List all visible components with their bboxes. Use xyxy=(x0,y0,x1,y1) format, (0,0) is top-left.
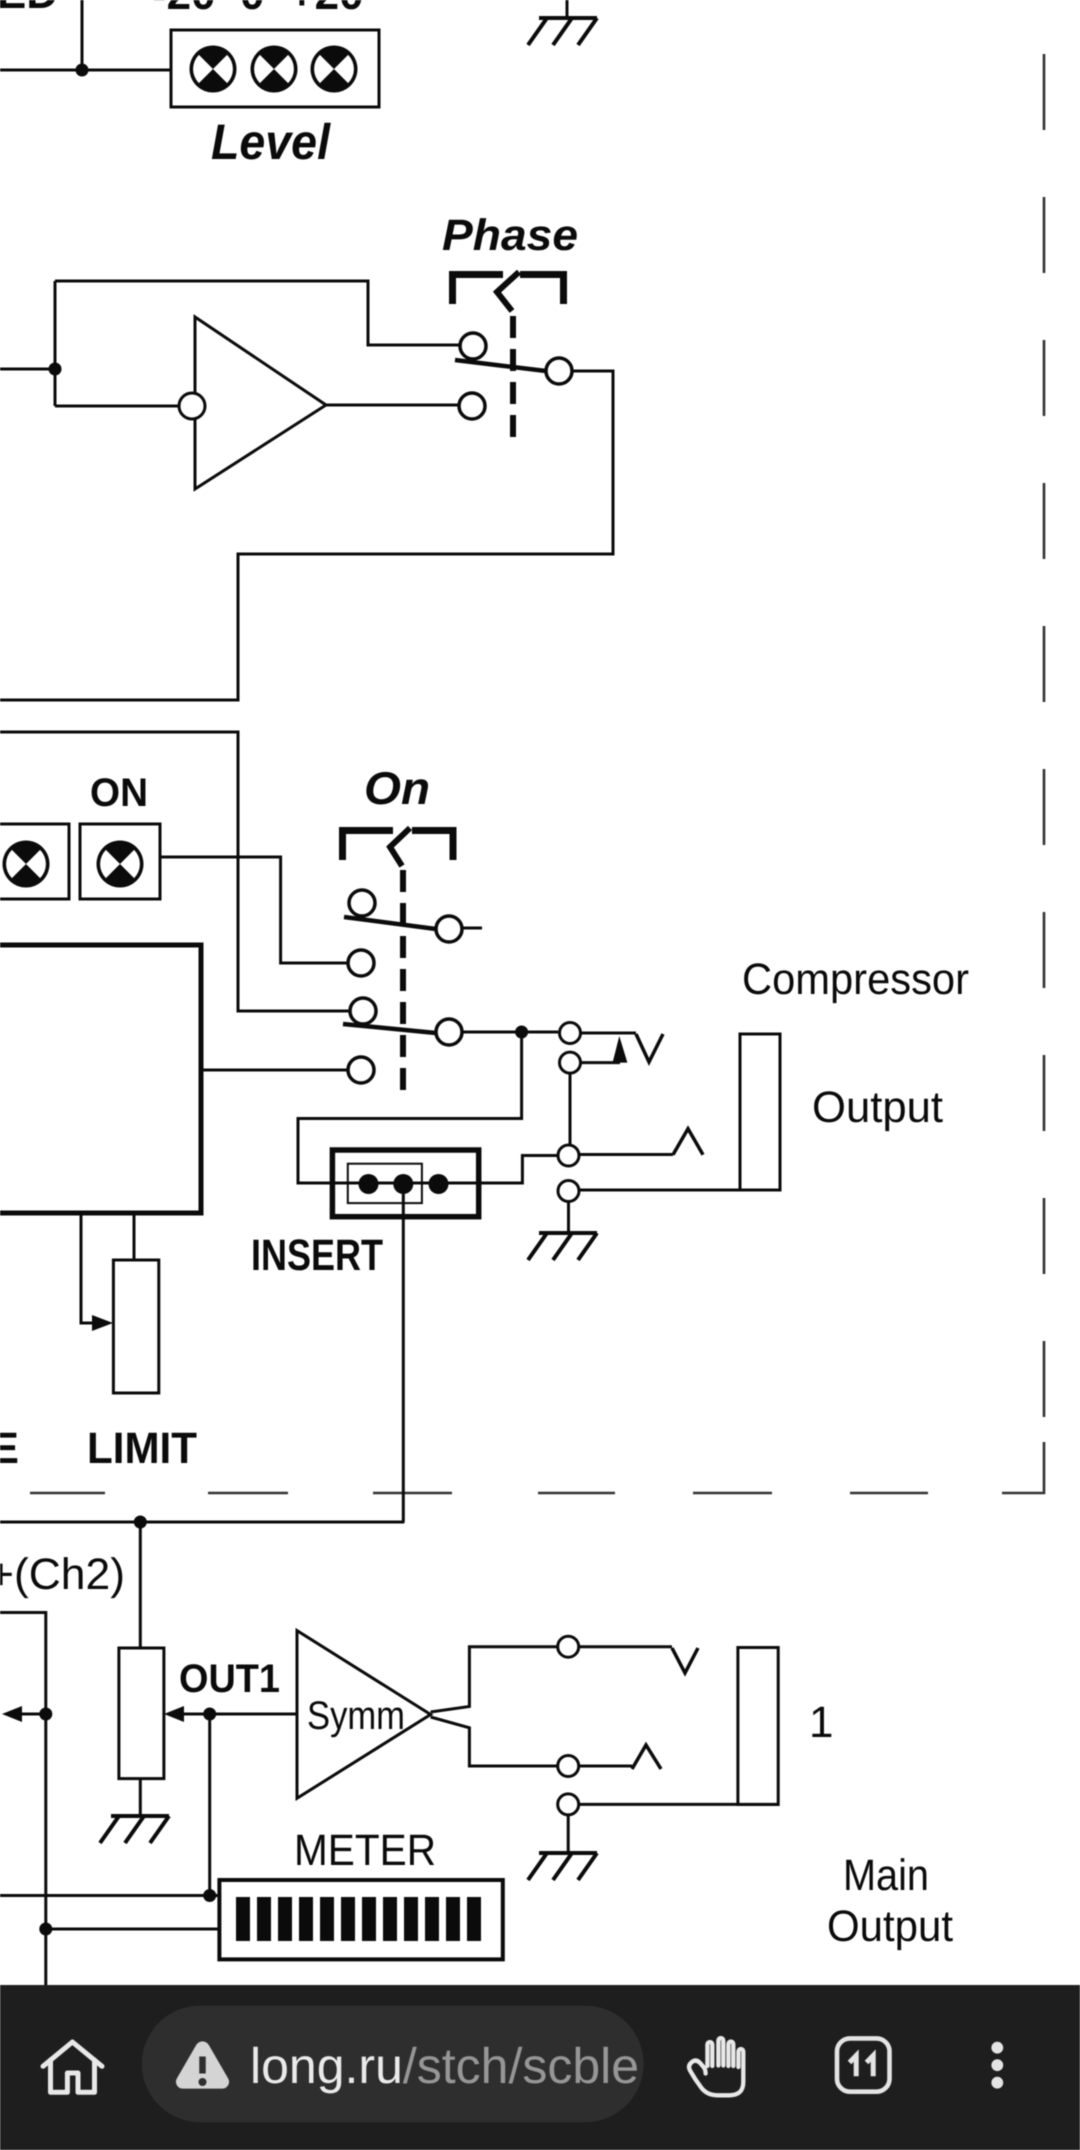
wire op-amp input from left xyxy=(0,368,55,371)
main out tip V contact xyxy=(672,1648,698,1673)
wire sleeve to jack body xyxy=(579,1803,778,1806)
INSERT connector inner box xyxy=(348,1164,422,1203)
svg-text:long.ru/stch/scble: long.ru/stch/scble xyxy=(250,2038,639,2094)
svg-text:Main: Main xyxy=(843,1851,929,1900)
On switch pole 3 contact xyxy=(350,998,376,1024)
ground stub top xyxy=(566,0,569,16)
wire return contact to caret xyxy=(579,1153,673,1156)
On switch actuator bracket xyxy=(343,831,454,861)
tip normal arrow xyxy=(613,1036,628,1063)
return normal caret xyxy=(673,1129,703,1155)
wire out1 down to meter xyxy=(208,1714,211,1896)
wire ring to caret xyxy=(579,1765,632,1768)
warning exclamation xyxy=(199,2057,206,2074)
wire stub with left arrow xyxy=(22,1713,46,1716)
phase switch pole B contact xyxy=(459,393,485,419)
svg-text:Output: Output xyxy=(827,1902,953,1951)
insert jack sleeve contact xyxy=(558,1181,579,1202)
node junction out1 xyxy=(203,1708,216,1721)
svg-text:-20 0 +20: -20 0 +20 xyxy=(152,0,364,19)
wire through insert connector xyxy=(332,1182,479,1185)
op-amp U2 symm output amp xyxy=(297,1631,431,1799)
wire pot bottom to ground xyxy=(139,1779,142,1814)
On switch lower lever xyxy=(343,1024,436,1033)
main out jack tip contact xyxy=(558,1636,579,1657)
wire main bus to out1 pot xyxy=(139,1522,142,1648)
inverter input bubble xyxy=(179,393,205,419)
lamp L3 xyxy=(311,46,358,93)
wire input vertical xyxy=(54,281,57,406)
lamp L2 xyxy=(251,46,298,93)
main out sleeve contact xyxy=(558,1794,579,1815)
wire op-amp output to phase switch pole B xyxy=(326,404,459,407)
ground symbol below insert jack xyxy=(528,1233,597,1260)
ground symbol top xyxy=(528,18,597,45)
ground symbol below main out jack xyxy=(528,1853,597,1880)
lamp L4 xyxy=(3,841,50,888)
wire ring contact to arrow base xyxy=(581,1061,621,1064)
wire insert return to jack return contact xyxy=(479,1156,558,1184)
out1 wiper arrow xyxy=(164,1706,184,1722)
main out ring caret xyxy=(632,1745,661,1769)
ON lamp box xyxy=(80,824,160,899)
svg-text:SPEED: SPEED xyxy=(0,0,58,18)
svg-text:GATE: GATE xyxy=(0,1424,19,1473)
svg-text:+(Ch2): +(Ch2) xyxy=(0,1550,125,1599)
wire ON lamp to On switch pole 2 xyxy=(160,857,349,963)
svg-text:ON: ON xyxy=(90,771,148,815)
wire send loop to insert connector xyxy=(298,1032,522,1183)
wire horizontal into Level lamp box xyxy=(0,69,171,72)
insert pin 2 xyxy=(393,1174,413,1194)
wire wiper to symm amp xyxy=(184,1713,297,1716)
svg-text:INSERT: INSERT xyxy=(251,1231,383,1280)
op-amp U1 phase inverter triangle xyxy=(195,317,326,489)
svg-text:On: On xyxy=(364,762,430,814)
dashed border right xyxy=(1043,54,1046,1417)
wire symm out upper xyxy=(431,1647,558,1712)
insert jack tip contact xyxy=(560,1023,581,1044)
node input junction xyxy=(49,363,62,376)
node junction left rail lower xyxy=(39,1923,52,1936)
svg-text:OUT1: OUT1 xyxy=(179,1657,280,1701)
menu dot 1 xyxy=(991,2042,1003,2054)
METER bargraph segments xyxy=(236,1897,481,1941)
insert pin 1 xyxy=(359,1174,379,1194)
tip normal V contact xyxy=(636,1034,663,1062)
wire sleeve to jack body xyxy=(579,1189,780,1192)
insert pin 3 xyxy=(429,1174,449,1194)
svg-text:Level: Level xyxy=(211,114,331,170)
insert jack return contact xyxy=(558,1145,579,1166)
jack normal chain wire xyxy=(569,1074,572,1146)
compressor block xyxy=(0,945,201,1213)
On switch pole 2 contact xyxy=(348,950,374,976)
wire from left into On switch pole 3 xyxy=(0,732,350,1011)
svg-text:Output: Output xyxy=(812,1083,943,1132)
phase switch lever xyxy=(455,360,546,371)
node junction left rail xyxy=(39,1708,52,1721)
wire vertical into speed node xyxy=(81,0,84,70)
On switch upper lever xyxy=(344,917,436,929)
METER display box xyxy=(219,1880,502,1959)
phase switch actuator bracket xyxy=(453,275,564,305)
node junction at meter wire xyxy=(203,1889,216,1902)
tab counter box xyxy=(837,2038,890,2091)
main out ring contact xyxy=(558,1756,579,1777)
left arrowhead xyxy=(2,1706,22,1722)
wire phase switch output down and left xyxy=(0,371,613,700)
tab counter number xyxy=(850,2056,874,2077)
phase switch pole A contact xyxy=(460,333,486,359)
wire into inverter bubble xyxy=(55,405,179,408)
wire from left down left rail xyxy=(0,1613,46,1986)
phase switch actuator squiggle xyxy=(497,272,519,311)
LIMIT pot body xyxy=(113,1260,158,1393)
node junction at speed wire xyxy=(76,64,89,77)
limit wiper arrow xyxy=(92,1315,113,1331)
Level meter box xyxy=(171,30,379,107)
On switch upper common contact xyxy=(436,916,462,942)
On switch actuator squiggle xyxy=(390,828,410,866)
home button icon xyxy=(43,2042,102,2092)
stub from upper common xyxy=(462,927,482,930)
On switch pole 4 contact xyxy=(348,1057,374,1083)
compressor output jack body xyxy=(740,1034,780,1190)
ground stub below main out xyxy=(567,1815,570,1851)
wire into meter lower xyxy=(46,1928,220,1931)
dashed border corner xyxy=(1002,1442,1044,1493)
wire feedback top to phase switch pole A xyxy=(55,281,460,345)
lamp L5 xyxy=(97,841,144,888)
svg-text:LIMIT: LIMIT xyxy=(87,1424,197,1473)
wire On switch output to insert tip xyxy=(462,1031,558,1034)
svg-text:METER: METER xyxy=(294,1826,436,1875)
lamp box left (cut) xyxy=(0,824,69,899)
lamp L1 xyxy=(190,46,237,93)
menu dot 3 xyxy=(991,2077,1003,2089)
insert jack ring contact xyxy=(560,1052,581,1073)
wire block to On switch pole 4 xyxy=(201,1069,348,1072)
menu dot 2 xyxy=(991,2059,1003,2071)
node junction before tip xyxy=(515,1026,528,1039)
wire symm out lower xyxy=(431,1717,558,1766)
warning triangle icon xyxy=(176,2041,229,2088)
dashed border bottom xyxy=(30,1492,928,1495)
ground stub below insert jack xyxy=(567,1202,570,1232)
On switch lower common contact xyxy=(436,1019,462,1045)
wire tip to V xyxy=(579,1645,672,1648)
wire into meter upper xyxy=(0,1894,219,1897)
INSERT connector outer box xyxy=(332,1150,478,1217)
node junction main bus xyxy=(134,1516,147,1529)
wire insert pin2 down to main bus xyxy=(402,1194,405,1522)
wire block to limit pot top xyxy=(133,1213,136,1260)
ground symbol below out1 pot xyxy=(100,1816,169,1843)
wire block to limit wiper xyxy=(81,1213,94,1323)
wire tip contact to V xyxy=(581,1032,637,1035)
svg-text:Compressor: Compressor xyxy=(742,955,969,1004)
svg-text:1: 1 xyxy=(809,1698,833,1747)
On switch pole 1 contact xyxy=(349,890,375,916)
On switch actuator dashed link xyxy=(400,870,406,1097)
svg-text:Phase: Phase xyxy=(442,211,578,260)
OUT1 pot body xyxy=(119,1648,164,1779)
phase switch actuator dashed link xyxy=(510,316,516,437)
main output jack body xyxy=(738,1648,778,1805)
url pill xyxy=(142,2006,644,2123)
phase switch common contact xyxy=(546,358,572,384)
svg-text:Symm: Symm xyxy=(307,1694,405,1738)
hand icon xyxy=(689,2038,743,2095)
main bus wire xyxy=(0,1521,404,1524)
